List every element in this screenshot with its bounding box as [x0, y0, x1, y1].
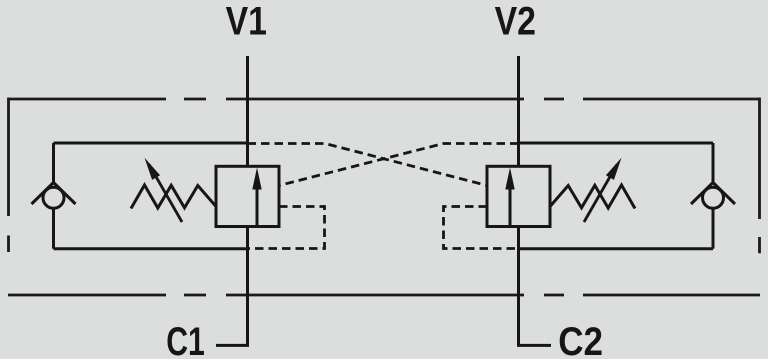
flow arrow in right valve: head [505, 168, 514, 190]
svg-text:C1: C1 [166, 319, 205, 359]
flow arrow in left valve: head [252, 168, 261, 190]
check valve CV2 ball [703, 187, 724, 208]
port line V2 (upper segment) [517, 56, 520, 167]
flow arrow in left valve: shaft [256, 188, 259, 226]
flow arrow in right valve: shaft [509, 188, 512, 226]
wire: left check branch vertical lower [52, 209, 55, 249]
adjustment arrow head right [606, 158, 622, 180]
adjustment arrow shaft left [149, 165, 182, 223]
enclosure boundary left edge [7, 98, 10, 252]
wire: right check branch vertical lower [712, 209, 715, 249]
wire: right check branch vertical upper [712, 143, 715, 183]
spring left (adjustable) [131, 185, 216, 209]
valve body left (relief element) [216, 166, 279, 226]
port line C2 (lower segment with tick to label) [517, 226, 551, 345]
svg-text:V1: V1 [226, 0, 267, 43]
port line C1 (lower segment with tick to label) [216, 226, 249, 345]
wire: left check branch top (y=143) [54, 142, 248, 145]
adjustment arrow head left [145, 158, 161, 180]
enclosure boundary right edge [758, 98, 761, 254]
enclosure boundary top edge [8, 98, 760, 101]
valve body right (relief element) [487, 166, 550, 226]
spring right (adjustable) [550, 185, 635, 209]
drain line left valve (dashed) [248, 207, 325, 249]
check valve CV2 seat [691, 183, 735, 205]
check valve CV1 ball [43, 187, 64, 208]
svg-text:C2: C2 [558, 319, 603, 359]
enclosure boundary bottom edge [8, 294, 760, 297]
pilot line from V1 to right valve (dashed) [248, 144, 488, 186]
adjustment arrow shaft right [584, 165, 617, 223]
wire: left check branch bottom (y=248.7) [54, 247, 248, 250]
check valve CV1 seat [32, 183, 76, 205]
wire: left check branch vertical upper [52, 143, 55, 183]
svg-text:V2: V2 [495, 0, 536, 43]
drain line right valve (dashed) [444, 207, 519, 249]
wire: right check branch top (y=143) [519, 142, 714, 145]
wire: right check branch bottom (y=248.7) [519, 247, 714, 250]
port line V1 (upper segment) [246, 56, 249, 167]
pilot line from V2 to left valve (dashed) [279, 144, 519, 186]
